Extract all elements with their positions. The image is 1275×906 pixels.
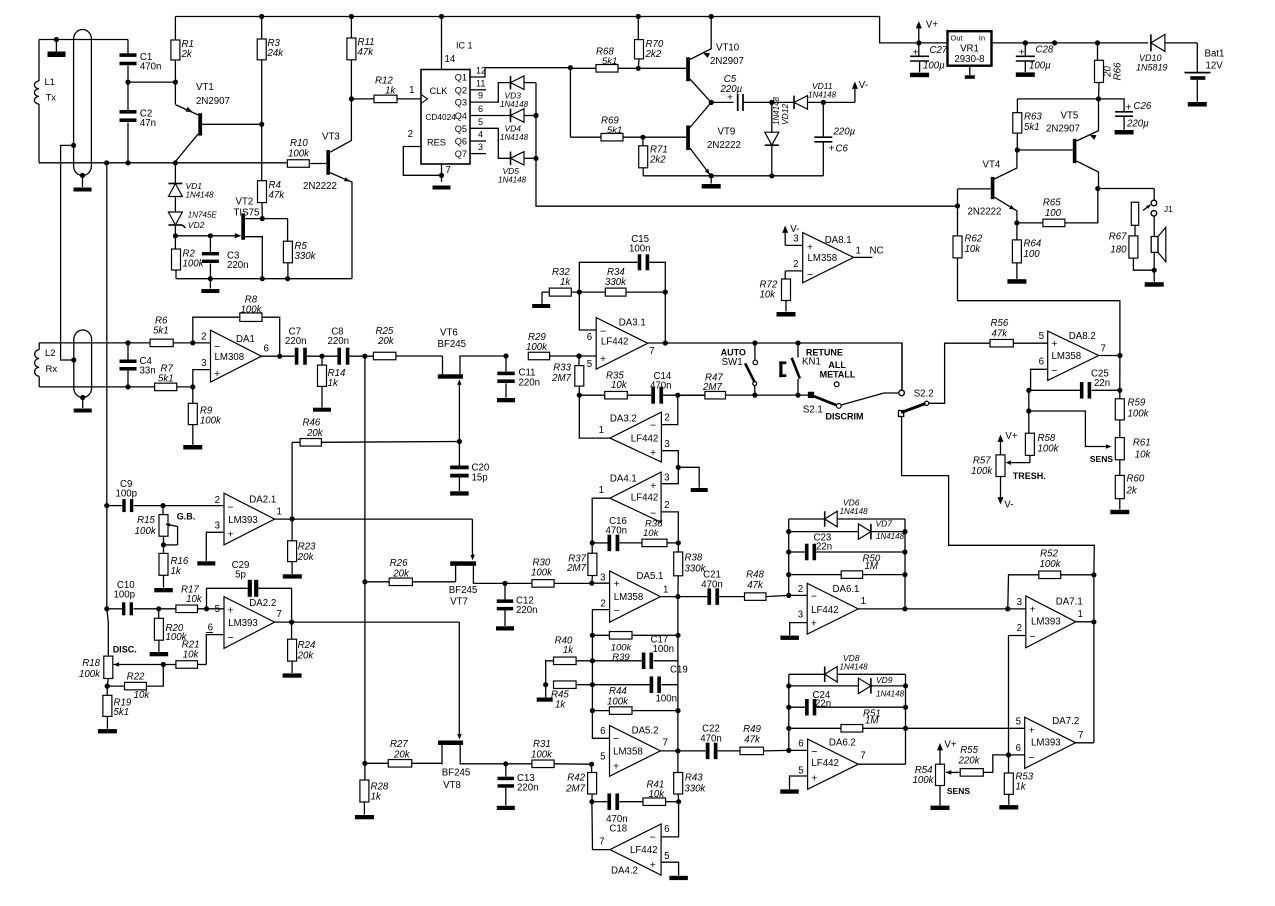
node DA6.2 pin6 junction xyxy=(786,748,791,753)
transistor VT3 2N2222 xyxy=(326,150,330,175)
svg-text:3: 3 xyxy=(793,234,798,245)
shield screen L1 coax oval xyxy=(74,30,92,176)
pin 9 Q3 stub xyxy=(470,83,511,103)
svg-text:AUTO: AUTO xyxy=(721,348,746,358)
svg-text:R31: R31 xyxy=(533,739,551,750)
svg-text:+: + xyxy=(228,529,234,541)
svg-text:Q2: Q2 xyxy=(455,85,467,95)
wire L2 bottom xyxy=(39,386,154,388)
svg-text:10k: 10k xyxy=(611,380,628,391)
power V- arrow DA8.1 xyxy=(784,231,786,245)
svg-text:BF245: BF245 xyxy=(449,585,478,596)
wire oscillator emitter rail xyxy=(39,162,287,164)
svg-text:+: + xyxy=(1029,725,1035,737)
capacitor C2 47n xyxy=(127,82,129,110)
svg-text:VD3: VD3 xyxy=(505,91,522,101)
svg-text:−: − xyxy=(600,326,606,338)
op-amp DA8.2 LM358 xyxy=(1048,331,1099,380)
resistor R44 100k xyxy=(592,710,609,712)
resistor R49 47k xyxy=(740,747,764,755)
capacitor C19 100n xyxy=(592,684,649,686)
svg-text:+: + xyxy=(228,605,234,617)
svg-text:DA1: DA1 xyxy=(236,334,255,345)
node R11 R12 VT3 junction xyxy=(349,96,354,101)
svg-text:100k: 100k xyxy=(1128,409,1150,420)
wire S2.2 pole to DA7 input xyxy=(902,417,1095,575)
svg-text:+: + xyxy=(650,447,656,459)
svg-text:2: 2 xyxy=(600,599,605,610)
capacitor C21 470n xyxy=(707,588,711,605)
capacitor C13 220n xyxy=(505,764,507,777)
svg-text:DA5.2: DA5.2 xyxy=(632,726,659,737)
resistor R46 20k xyxy=(292,441,300,443)
svg-text:−: − xyxy=(1030,631,1036,643)
resistor R27 20k xyxy=(365,762,388,764)
wire top supply bus xyxy=(175,17,947,43)
capacitor C26 220u polarized xyxy=(1099,99,1125,112)
resistor R30 100k xyxy=(532,580,554,588)
capacitor C24 22n xyxy=(789,706,805,708)
svg-text:SW1: SW1 xyxy=(722,357,743,368)
variable resistor R57 100k xyxy=(996,455,1005,477)
switch S2.1 DISCRIM xyxy=(726,394,811,396)
pin 5 Q5 stub xyxy=(470,128,511,158)
svg-text:1N4148: 1N4148 xyxy=(876,532,905,541)
svg-text:2M7: 2M7 xyxy=(702,382,722,393)
svg-text:R10: R10 xyxy=(290,138,308,149)
resistor R26 20k xyxy=(365,581,389,583)
svg-text:9: 9 xyxy=(478,91,483,101)
wire DA3.1 pin6 xyxy=(579,292,596,330)
wire DA4.2 output to R42 xyxy=(592,802,610,850)
power V+ arrow xyxy=(916,40,921,45)
node DA6.1 pin2 junction xyxy=(786,593,791,598)
battery Bat1 12V xyxy=(1196,43,1198,73)
diode VD11 1N4148 xyxy=(772,101,794,103)
svg-text:−: − xyxy=(228,502,234,514)
node DA8.2 output xyxy=(1099,355,1120,357)
resistor R2 100k xyxy=(174,236,176,249)
ground DA6.1 pin3 xyxy=(780,636,799,640)
svg-text:R60: R60 xyxy=(1127,474,1145,485)
svg-text:V-: V- xyxy=(790,224,799,235)
wire output feedback column xyxy=(677,597,679,751)
capacitor C16 470n xyxy=(592,542,607,544)
inductor L2 Rx xyxy=(38,343,40,350)
resistor R35 10k xyxy=(605,391,628,399)
svg-text:DA4.1: DA4.1 xyxy=(610,474,637,485)
node DA5.1 output xyxy=(660,596,707,598)
svg-text:R46: R46 xyxy=(303,418,321,429)
wire Q1 to R69 xyxy=(569,68,571,138)
svg-text:4: 4 xyxy=(478,130,483,140)
resistor R25 20k xyxy=(373,352,396,360)
svg-text:1N5819: 1N5819 xyxy=(1136,63,1168,73)
resistor R31 100k xyxy=(532,760,554,768)
node C18 row junctions xyxy=(589,799,594,804)
svg-text:VD2: VD2 xyxy=(188,220,205,230)
svg-text:2: 2 xyxy=(215,495,220,506)
wire comparator bias bus xyxy=(364,356,366,763)
svg-text:METALL: METALL xyxy=(820,370,856,380)
switch SW1 AUTO xyxy=(754,343,756,360)
svg-text:R66: R66 xyxy=(1113,62,1124,80)
svg-text:+: + xyxy=(600,353,606,365)
svg-text:R44: R44 xyxy=(609,686,627,697)
svg-text:DA8.1: DA8.1 xyxy=(825,235,852,246)
svg-text:220µ: 220µ xyxy=(1126,119,1149,130)
svg-text:1M: 1M xyxy=(865,716,879,727)
wire DA8.2 pin6 xyxy=(1031,369,1048,390)
svg-text:2k: 2k xyxy=(181,49,193,60)
svg-text:DA5.1: DA5.1 xyxy=(637,571,664,582)
diode VD6 1N4148 xyxy=(789,518,825,520)
svg-text:1k: 1k xyxy=(560,277,571,288)
svg-text:1: 1 xyxy=(856,246,861,257)
svg-text:VR1: VR1 xyxy=(960,44,979,55)
svg-text:7: 7 xyxy=(663,738,668,749)
svg-text:100k: 100k xyxy=(912,775,934,786)
svg-text:S2.2: S2.2 xyxy=(914,389,934,400)
svg-text:VD4: VD4 xyxy=(505,124,522,134)
svg-text:5k1: 5k1 xyxy=(114,707,130,718)
svg-text:100µ: 100µ xyxy=(1029,61,1051,72)
resistor R16 1k xyxy=(159,553,168,575)
node C16 row left junction xyxy=(590,540,595,545)
ground R54 xyxy=(939,786,941,806)
svg-text:LM358: LM358 xyxy=(808,253,838,264)
svg-text:2N2907: 2N2907 xyxy=(196,96,230,107)
svg-text:6: 6 xyxy=(798,739,803,750)
svg-text:3: 3 xyxy=(664,473,669,484)
op-amp DA7.1 LM393 xyxy=(1026,596,1076,648)
switch S2.2 xyxy=(899,390,905,396)
wire C15 R34 to output xyxy=(664,292,666,343)
svg-text:VT1: VT1 xyxy=(196,82,214,93)
svg-text:11: 11 xyxy=(476,78,485,88)
capacitor C17 100n xyxy=(592,660,641,662)
svg-text:LF442: LF442 xyxy=(601,337,628,348)
svg-text:VT9: VT9 xyxy=(718,127,736,138)
node R18 R19 junction xyxy=(107,679,108,687)
wire DA6.2 feedback left column xyxy=(788,674,790,750)
svg-text:−: − xyxy=(1051,365,1057,377)
node DA7.1 output xyxy=(1076,621,1094,623)
diode VD3 1N4148 xyxy=(510,76,512,90)
transistor VT5 2N2907 xyxy=(1073,139,1077,163)
ground C13 xyxy=(497,806,515,810)
pin 11 Q2 stub xyxy=(470,89,486,91)
svg-text:20k: 20k xyxy=(377,336,395,347)
svg-text:R65: R65 xyxy=(1043,198,1061,209)
node DA3.1 output xyxy=(663,340,668,345)
resistor R59 100k xyxy=(1119,390,1121,399)
op VR1 2930-8 regulator xyxy=(948,31,992,65)
wire DA6.2 pin6 xyxy=(789,749,808,751)
wire DA2.1 pin3 ground stub xyxy=(206,532,224,561)
svg-text:470n: 470n xyxy=(700,734,722,745)
node shield L1 bottom ground xyxy=(80,173,85,178)
svg-text:2: 2 xyxy=(793,259,798,270)
wire DA5.1 pin2 chain xyxy=(592,610,609,739)
wire DA6.2 pin5 ground xyxy=(790,776,808,789)
resistor R36 10k xyxy=(642,539,667,547)
diode VD12 1N4148 xyxy=(771,102,773,132)
resistor R4 47k xyxy=(258,181,267,203)
speaker xyxy=(1153,216,1155,237)
op-amp DA2.2 LM393 xyxy=(224,597,275,649)
ground R64 xyxy=(1007,279,1026,284)
svg-text:2: 2 xyxy=(664,500,669,511)
capacitor C4 33n xyxy=(127,343,129,360)
svg-text:DA3.1: DA3.1 xyxy=(619,318,646,329)
svg-text:1N4148: 1N4148 xyxy=(500,133,529,142)
ground C11 xyxy=(497,398,515,402)
node Q1 drive junction xyxy=(568,65,573,70)
svg-text:VT6: VT6 xyxy=(440,328,458,339)
resistor R7 5k1 xyxy=(155,383,177,391)
svg-text:+: + xyxy=(613,761,619,773)
svg-text:TIS75: TIS75 xyxy=(234,208,260,219)
svg-text:LM393: LM393 xyxy=(1031,617,1061,628)
svg-text:LF442: LF442 xyxy=(631,434,658,445)
resistor R51 1M xyxy=(789,727,841,729)
wire DA8.1 pin2 xyxy=(785,270,803,272)
node shield L2 ground xyxy=(80,395,85,400)
ground R23 xyxy=(283,574,302,578)
svg-text:1N4148: 1N4148 xyxy=(498,176,527,185)
ground R20 xyxy=(150,652,169,656)
diode VD10 1N5819 xyxy=(1150,34,1152,51)
ground C28 xyxy=(1016,72,1035,77)
resistor R8 100k feedback xyxy=(193,317,240,343)
svg-text:3: 3 xyxy=(215,521,220,532)
svg-text:100n: 100n xyxy=(629,244,651,255)
capacitor C29 5p xyxy=(207,588,248,609)
svg-text:LM308: LM308 xyxy=(215,352,245,363)
svg-text:1k: 1k xyxy=(385,86,396,97)
svg-text:22n: 22n xyxy=(816,542,832,553)
svg-text:5k1: 5k1 xyxy=(1024,122,1040,133)
svg-text:2k2: 2k2 xyxy=(649,155,666,166)
svg-text:2: 2 xyxy=(201,332,206,343)
op-amp DA6.2 LF442 xyxy=(808,739,859,789)
svg-text:LM358: LM358 xyxy=(1052,351,1082,362)
diode VD1 1N4148 xyxy=(174,163,176,184)
resistor R21 10k xyxy=(163,664,176,666)
svg-text:1N745E: 1N745E xyxy=(188,211,218,220)
resistor R32 1k xyxy=(542,291,549,293)
svg-text:47k: 47k xyxy=(747,580,764,591)
svg-text:12V: 12V xyxy=(1206,61,1224,72)
svg-text:+: + xyxy=(727,92,733,104)
svg-text:5p: 5p xyxy=(235,570,246,581)
svg-text:330k: 330k xyxy=(684,784,706,795)
op-amp DA4.1 LF442 xyxy=(610,472,661,522)
resistor R3 24k xyxy=(261,17,263,40)
svg-text:3: 3 xyxy=(201,358,206,369)
wire DA6.1 feedback right column xyxy=(904,519,906,609)
svg-text:R55: R55 xyxy=(960,745,978,756)
resistor R67 180 xyxy=(1129,236,1138,258)
svg-text:V+: V+ xyxy=(926,20,938,31)
svg-text:R26: R26 xyxy=(390,558,408,569)
svg-text:5: 5 xyxy=(664,851,669,862)
svg-text:DA7.1: DA7.1 xyxy=(1056,597,1083,608)
svg-text:VT2: VT2 xyxy=(236,197,254,208)
wire DA2.2 pin6 from R21 xyxy=(206,635,224,665)
resistor R42 2M7 xyxy=(591,764,593,772)
svg-text:6: 6 xyxy=(1039,357,1044,368)
svg-text:100k: 100k xyxy=(79,669,101,680)
svg-text:R38: R38 xyxy=(685,553,703,564)
svg-text:1N4148: 1N4148 xyxy=(876,690,905,699)
svg-text:22n: 22n xyxy=(1094,378,1110,389)
svg-text:5: 5 xyxy=(215,604,220,615)
wire DA6.1 feedback left column xyxy=(788,519,790,595)
resistor R53 1k xyxy=(1008,755,1010,773)
capacitor C10 100p xyxy=(104,606,109,611)
svg-text:R24: R24 xyxy=(298,640,316,651)
svg-text:VD6: VD6 xyxy=(843,498,860,508)
resistor R23 20k xyxy=(291,519,293,541)
wire VT2 source rail xyxy=(176,278,352,280)
svg-text:DISC.: DISC. xyxy=(113,645,137,655)
svg-text:6: 6 xyxy=(478,104,483,114)
ground VT9 emitter xyxy=(710,176,712,184)
svg-text:+: + xyxy=(1030,604,1036,616)
svg-text:C26: C26 xyxy=(1134,101,1152,112)
resistor R6 5k1 xyxy=(150,339,173,347)
svg-text:+: + xyxy=(1018,47,1024,59)
node bias junction xyxy=(676,465,681,470)
svg-text:24k: 24k xyxy=(267,48,285,59)
svg-text:DA6.2: DA6.2 xyxy=(829,738,856,749)
svg-text:100p: 100p xyxy=(116,489,138,500)
ground R60 xyxy=(1110,510,1129,514)
svg-text:10k: 10k xyxy=(643,528,660,539)
svg-text:VD1: VD1 xyxy=(186,181,203,191)
svg-text:1: 1 xyxy=(409,85,414,96)
svg-text:5: 5 xyxy=(798,766,803,777)
svg-text:LM358: LM358 xyxy=(614,592,644,603)
resistor R52 100k feedback xyxy=(1008,575,1039,609)
wire DA8.1 output NC xyxy=(854,256,873,258)
node DA2.2 output xyxy=(275,621,460,623)
resistor R43 330k xyxy=(677,751,679,773)
svg-text:Q4: Q4 xyxy=(455,111,467,121)
svg-text:1M: 1M xyxy=(865,561,879,572)
svg-text:7: 7 xyxy=(1078,730,1083,741)
resistor R48 47k xyxy=(745,593,767,601)
svg-text:1: 1 xyxy=(599,485,604,496)
svg-text:100k: 100k xyxy=(607,697,629,708)
resistor R11 47k xyxy=(350,17,352,39)
node spare junction xyxy=(1052,40,1057,45)
capacitor C28 100u polarized xyxy=(1023,40,1028,45)
svg-text:R57: R57 xyxy=(973,456,991,467)
resistor R58 100k xyxy=(1025,433,1034,455)
capacitor C12 220n xyxy=(504,583,506,599)
svg-text:1N4148: 1N4148 xyxy=(500,100,529,109)
svg-text:20k: 20k xyxy=(306,428,324,439)
ground R45 xyxy=(545,685,547,698)
zener diode VD2 1N745E xyxy=(168,224,182,226)
wire DA7.1 pin2 xyxy=(1009,636,1026,755)
svg-text:100k: 100k xyxy=(183,259,205,270)
op-amp DA2.1 LM393 xyxy=(224,493,275,545)
svg-text:VD10: VD10 xyxy=(1139,53,1162,63)
capacitor C1 470n xyxy=(127,40,129,54)
svg-text:100k: 100k xyxy=(526,342,548,353)
svg-text:−: − xyxy=(811,591,817,603)
svg-text:LF442: LF442 xyxy=(631,493,658,504)
svg-text:TRESH.: TRESH. xyxy=(1013,471,1046,481)
svg-text:VD7: VD7 xyxy=(876,519,893,529)
svg-text:2: 2 xyxy=(798,584,803,595)
svg-text:1N4148: 1N4148 xyxy=(186,191,215,200)
svg-text:6: 6 xyxy=(1016,743,1021,754)
svg-text:+: + xyxy=(811,618,817,630)
svg-text:+: + xyxy=(214,368,220,380)
svg-text:C18: C18 xyxy=(609,824,627,835)
svg-text:DISCRIM: DISCRIM xyxy=(826,412,864,422)
node VD2 R2 C3 junction xyxy=(173,233,178,238)
node VT10 VT9 collector junction xyxy=(709,100,714,105)
svg-text:470n: 470n xyxy=(701,580,723,591)
connector J1 jack xyxy=(1153,189,1155,201)
diode VD5 1N4148 xyxy=(510,152,512,166)
node DA2.1 output xyxy=(275,518,473,520)
resistor R5 330k xyxy=(287,219,289,242)
resistor R64 100 xyxy=(1016,223,1018,240)
wire DA2.1 output to VT7 gate xyxy=(471,519,473,553)
capacitor C8 220n xyxy=(337,348,341,365)
resistor R66 20 xyxy=(1095,40,1100,45)
wire diode OR bus xyxy=(536,83,957,207)
wire DA6.1 pin2 xyxy=(789,594,808,596)
wire tap to R61 wiper xyxy=(1029,411,1106,447)
wire DA6.1 pin3 ground xyxy=(790,623,808,636)
resistor R10 100k xyxy=(287,160,309,168)
pin 14 supply xyxy=(441,17,443,70)
svg-text:VT4: VT4 xyxy=(983,160,1001,171)
svg-text:6: 6 xyxy=(264,344,269,355)
svg-text:470n: 470n xyxy=(140,62,162,73)
ground C26 xyxy=(1115,130,1134,135)
diode VD4 1N4148 xyxy=(510,109,512,123)
ground VR1 xyxy=(969,66,971,75)
svg-text:R62: R62 xyxy=(965,234,983,245)
node R58 tap junction xyxy=(1028,390,1030,433)
svg-text:R67: R67 xyxy=(1109,232,1127,243)
svg-text:R56: R56 xyxy=(991,318,1009,329)
resistor R65 100 xyxy=(1017,222,1043,224)
svg-text:7: 7 xyxy=(277,609,282,620)
svg-text:CD4024: CD4024 xyxy=(425,112,456,122)
svg-text:LM393: LM393 xyxy=(228,515,258,526)
svg-text:100k: 100k xyxy=(135,526,157,537)
svg-text:DA7.2: DA7.2 xyxy=(1052,716,1079,727)
resistor R62 10k xyxy=(957,206,959,236)
svg-text:L1: L1 xyxy=(45,77,56,88)
wire DA8.1 pin3 xyxy=(785,244,803,246)
node bias bus C9 tap xyxy=(104,503,109,508)
svg-text:100k: 100k xyxy=(971,466,993,477)
capacitor C20 15p xyxy=(450,466,469,470)
inductor L1 Tx xyxy=(38,40,40,82)
capacitor C7 220n xyxy=(295,348,299,365)
